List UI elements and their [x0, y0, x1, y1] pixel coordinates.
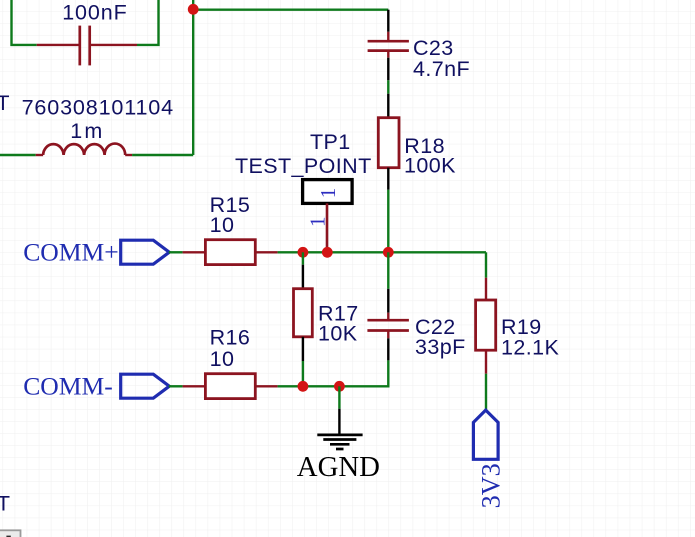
wire [302, 337, 304, 361]
pin 1 of TP1 [326, 203, 329, 252]
resistor R16 [183, 374, 278, 399]
label T (cut off, bottom) [0, 492, 10, 516]
junction [298, 381, 309, 392]
svg-text:10: 10 [210, 213, 235, 237]
power symbol AGND [317, 409, 362, 449]
wire [485, 374, 487, 410]
junction [322, 247, 333, 258]
wire [193, 8, 388, 10]
value label 10K [318, 322, 358, 346]
wire [302, 361, 304, 386]
value label 12.1K [501, 335, 559, 359]
reference label C22 [415, 315, 456, 339]
ui scroll corner box [0, 530, 21, 537]
resistor R17 [294, 289, 313, 337]
wire [302, 252, 304, 264]
junction [188, 4, 199, 15]
value label 100K [404, 154, 456, 178]
svg-text:TEST_POINT: TEST_POINT [235, 154, 372, 178]
svg-text:33pF: 33pF [415, 335, 466, 359]
wire [387, 58, 389, 81]
svg-text:3V3: 3V3 [476, 463, 505, 508]
wire [485, 252, 487, 277]
svg-text:1: 1 [316, 188, 340, 199]
wire [132, 154, 193, 156]
value label 33pF [415, 335, 466, 359]
capacitor C23 4.7nF [368, 32, 409, 58]
reference label R18 [404, 134, 445, 158]
wire [0, 154, 36, 156]
svg-text:T: T [0, 91, 10, 115]
reference label R17 [318, 301, 359, 325]
wire [387, 190, 389, 253]
svg-text:1: 1 [306, 217, 330, 228]
power label 3V3 [476, 463, 505, 508]
svg-text:760308101104: 760308101104 [22, 95, 174, 120]
wire [387, 168, 389, 190]
svg-text:12.1K: 12.1K [501, 335, 559, 359]
wire [169, 385, 183, 387]
reference label TP1 [310, 130, 351, 154]
svg-text:COMM-: COMM- [23, 371, 113, 400]
wire [192, 0, 194, 155]
wire [169, 251, 183, 253]
wire [278, 385, 340, 387]
resistor R15 [183, 240, 278, 265]
svg-text:AGND: AGND [297, 451, 380, 483]
resistor R18 [378, 118, 399, 168]
wire [278, 251, 486, 253]
svg-text:4.7nF: 4.7nF [413, 57, 470, 81]
svg-text:100nF: 100nF [62, 0, 127, 24]
wire [302, 265, 304, 289]
value label 1m [70, 119, 104, 143]
wire [387, 338, 389, 360]
value label 4.7nF [413, 57, 470, 81]
global label COMM- [23, 371, 169, 400]
pin number 1 [306, 217, 330, 228]
junction [334, 381, 345, 392]
wire [387, 252, 389, 288]
reference label R19 [501, 315, 542, 339]
power label AGND [297, 451, 380, 483]
wire [137, 0, 159, 45]
value label 10 [210, 347, 235, 371]
label T (cut off) [0, 91, 10, 115]
power symbol 3V3 [473, 410, 498, 459]
svg-text:100K: 100K [404, 154, 456, 178]
wire [387, 10, 389, 32]
svg-text:COMM+: COMM+ [23, 237, 119, 266]
svg-text:TP1: TP1 [310, 130, 351, 154]
reference label C23 [413, 36, 454, 60]
test point TP1 body [303, 180, 353, 204]
value label 100nF [62, 0, 127, 24]
svg-text:R16: R16 [210, 326, 251, 350]
wire [338, 386, 340, 408]
svg-text:1m: 1m [70, 119, 104, 143]
wire [387, 80, 389, 93]
value label TEST_POINT [235, 154, 372, 178]
wire [339, 360, 388, 386]
svg-text:10K: 10K [318, 322, 358, 346]
pin number 1 [316, 188, 340, 199]
capacitor C4 100nF [37, 26, 137, 66]
junction [298, 247, 309, 258]
global label COMM+ [23, 237, 169, 266]
reference label R15 [210, 193, 251, 217]
value label 760308101104 [22, 95, 174, 120]
wire [387, 94, 389, 118]
capacitor C22 33pF [367, 313, 409, 339]
svg-text:T: T [0, 492, 10, 516]
inductor L 1m [36, 144, 132, 155]
junction [383, 247, 394, 258]
reference label R16 [210, 326, 251, 350]
svg-text:10: 10 [210, 347, 235, 371]
wire [387, 289, 389, 313]
wire [12, 0, 37, 45]
resistor R19 [476, 278, 496, 374]
value label 10 [210, 213, 235, 237]
